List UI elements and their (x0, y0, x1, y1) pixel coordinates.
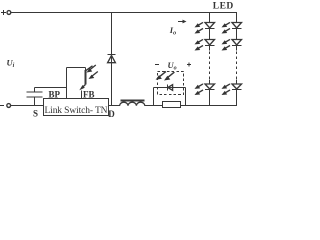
load light arrow right (168, 72, 174, 77)
inductor L1 winding (120, 102, 145, 106)
load light arrow left (160, 71, 166, 76)
IC U1 internal frame horizontal (67, 67, 86, 69)
LED string 1 diode 2 bar (205, 45, 215, 47)
current Io arrowhead (183, 20, 187, 24)
LED string 1 diode 1 triangle (205, 23, 215, 29)
LED string 1 diode 2 triangle (205, 40, 215, 46)
LED string 2 diode 2 bar (232, 45, 242, 47)
LED string 1 diode 3 bar (205, 89, 215, 91)
plus terminal label (1, 10, 6, 15)
svg-text:LED: LED (213, 2, 234, 12)
light arrow upper into Q1 (90, 65, 96, 70)
IC U1 internal frame vertical (66, 68, 68, 99)
svg-text:Ui: Ui (7, 58, 15, 70)
diode D1 freewheel triangle (108, 56, 116, 63)
label plus of Uo (187, 64, 191, 65)
LED load diode triangle (168, 85, 173, 91)
current Io arrow shaft (178, 21, 185, 23)
svg-text:Io: Io (169, 25, 176, 37)
LED string 1 dashed wire (209, 52, 211, 80)
inductor L1 core bar (121, 100, 145, 102)
transistor Q1 emitter arrow (82, 85, 86, 88)
wire output left leg (153, 88, 155, 106)
LED string 1 mid wire (209, 29, 211, 40)
transistor Q1 collector diagonal (86, 66, 93, 71)
LED string 1 wire to diode 3 (209, 80, 211, 85)
svg-text:Link Switch- TN: Link Switch- TN (45, 106, 108, 116)
svg-text:D: D (108, 109, 115, 119)
wire D pin to inductor (109, 105, 121, 107)
LED string 2 wire to dashes (236, 46, 238, 51)
IC U1 main box (44, 99, 109, 116)
capacitor C1 top plate (27, 91, 43, 93)
transistor Q1 bar (85, 68, 87, 71)
LED1b light arrows (198, 39, 203, 42)
wire top rail (11, 12, 237, 14)
svg-text:BP: BP (49, 89, 61, 99)
LED2c light arrows (225, 84, 230, 87)
plus input terminal circle (7, 11, 11, 15)
dashed load module box (158, 72, 184, 95)
LED string 2 diode 3 bar (232, 89, 242, 91)
LED string 1 diode 3 triangle (205, 84, 215, 89)
transistor FB pin lead (81, 91, 83, 99)
minus terminal label (0, 105, 4, 106)
LED string 1 bottom wire (209, 90, 211, 106)
LED string 2 dashed wire (236, 52, 238, 80)
wire output right leg (185, 88, 187, 106)
LED string 1 wire to dashes (209, 46, 211, 51)
capacitor C1 top lead (34, 88, 36, 93)
wire freewheel branch vertical (111, 13, 113, 106)
LED1c light arrows (198, 84, 203, 87)
wire BP lead (35, 87, 67, 89)
resistor R1 body (163, 102, 181, 108)
LED string 2 diode 1 bar (232, 28, 242, 30)
wire output top with LED load (154, 87, 186, 89)
capacitor C1 bottom plate (27, 96, 43, 98)
LED string 1 diode 1 bar (205, 28, 215, 30)
LED2a light arrows (225, 22, 230, 25)
svg-text:S: S (33, 109, 38, 119)
LED string 2 mid wire (236, 29, 238, 40)
light arrow lower into Q1 (92, 72, 98, 77)
minus input terminal circle (7, 104, 11, 108)
wire resistor to LED strings (181, 105, 238, 107)
LED string 2 diode 1 triangle (232, 23, 242, 29)
wire inductor to output (145, 105, 163, 107)
LED string 2 wire to diode 3 (236, 80, 238, 85)
diode D1 cathode bar (108, 54, 116, 56)
label minus of Uo (155, 63, 191, 67)
LED2b light arrows (225, 39, 230, 42)
svg-text:Uo: Uo (168, 60, 177, 72)
LED string 2 diode 3 triangle (232, 84, 242, 89)
capacitor C1 bottom lead (34, 97, 36, 106)
LED1a light arrows (198, 22, 203, 25)
LED string 2 top wire (236, 13, 238, 23)
svg-text:FB: FB (83, 89, 95, 99)
LED string 2 bottom wire (236, 90, 238, 106)
LED string 1 top wire (209, 13, 211, 23)
LED string 2 diode 2 triangle (232, 40, 242, 46)
wire bottom left to IC S pin (11, 105, 44, 107)
LED load diode cathode bar (167, 85, 169, 91)
